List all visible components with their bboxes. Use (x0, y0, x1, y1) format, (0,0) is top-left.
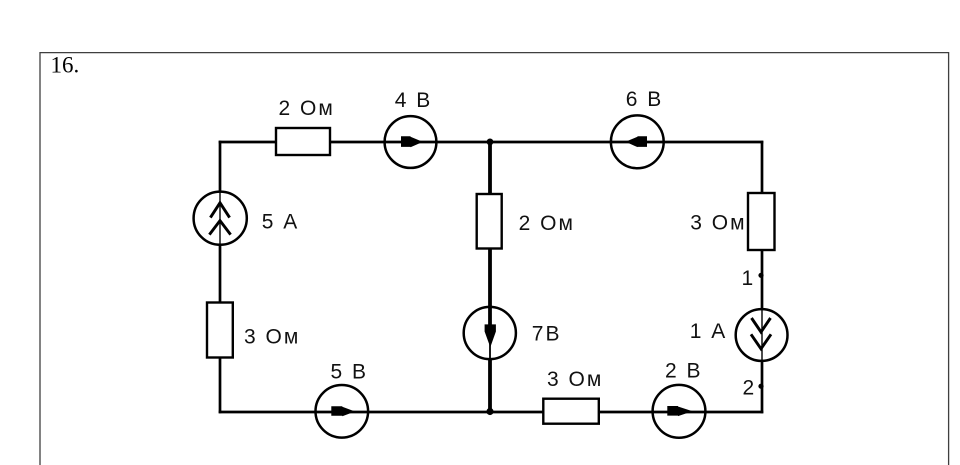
voltage source E3 7 B circle (464, 307, 516, 359)
arrow of source 5 B pointing right (331, 406, 355, 416)
voltage source E4 5 B circle (316, 385, 369, 438)
chevron arrows of 5A source pointing up (209, 203, 230, 235)
wire middle branch lower (488, 360, 492, 412)
wire through 5A source (219, 191, 221, 246)
wire through 1A source (761, 308, 763, 362)
arrow of source 6 B pointing left (626, 136, 648, 147)
junction node bottom (486, 408, 493, 415)
resistor R3 2 Om middle (477, 194, 502, 249)
wire bottom (219, 411, 764, 414)
wire top (219, 141, 764, 144)
arrow of source 4 B pointing right (401, 136, 423, 147)
svg-text:1 А: 1 А (690, 320, 728, 343)
svg-text:2 В: 2 В (665, 360, 703, 383)
chevron arrows of 1A source pointing down (751, 318, 771, 349)
wire right branch lower (761, 361, 764, 413)
voltage source E2 6 B circle (611, 115, 664, 168)
svg-text:16.: 16. (51, 52, 80, 77)
wire middle branch upper (488, 142, 492, 331)
current source J1 5 A circle (194, 192, 247, 245)
wire right branch upper (761, 141, 764, 309)
svg-text:3 Ом: 3 Ом (244, 326, 300, 349)
svg-text:6 В: 6 В (626, 88, 664, 111)
wire left branch upper (219, 141, 222, 192)
svg-text:1: 1 (742, 267, 756, 290)
node 1 dot (758, 273, 763, 278)
current source J2 1 A circle (736, 309, 788, 361)
resistor R2 3 Om left (207, 303, 233, 358)
arrow of source 2 B pointing right (667, 406, 692, 416)
svg-text:2 Ом: 2 Ом (519, 212, 575, 235)
svg-text:2: 2 (743, 377, 757, 400)
resistor R4 3 Om right (748, 193, 775, 250)
wire left branch lower (219, 245, 222, 413)
svg-text:7В: 7В (532, 323, 562, 346)
svg-text:3 Ом: 3 Ом (547, 368, 603, 391)
svg-text:4 В: 4 В (395, 89, 433, 112)
svg-text:2 Ом: 2 Ом (279, 97, 335, 120)
svg-text:3 Ом: 3 Ом (690, 212, 746, 235)
wire through 7B source (489, 330, 491, 361)
node 2 dot (758, 384, 763, 389)
resistor R5 3 Om bottom (543, 399, 599, 424)
voltage source E5 2 B circle (653, 385, 706, 438)
arrow of source 7 B pointing down (485, 324, 496, 347)
svg-text:5 В: 5 В (331, 361, 369, 384)
resistor R1 2 Om top (276, 128, 330, 155)
svg-text:5 А: 5 А (262, 211, 300, 234)
junction node top (487, 139, 494, 146)
voltage source E1 4 B circle (385, 116, 437, 168)
